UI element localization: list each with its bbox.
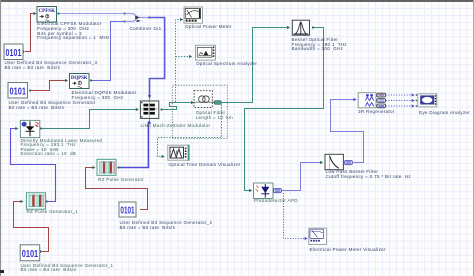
svg-text:0101: 0101 [6, 48, 22, 59]
svg-text:CPFSK: CPFSK [39, 8, 56, 14]
svg-text:0101: 0101 [120, 206, 134, 217]
svg-text:0101: 0101 [22, 249, 39, 260]
svg-text:0101: 0101 [10, 86, 27, 97]
svg-text:DQPSK: DQPSK [71, 75, 88, 81]
